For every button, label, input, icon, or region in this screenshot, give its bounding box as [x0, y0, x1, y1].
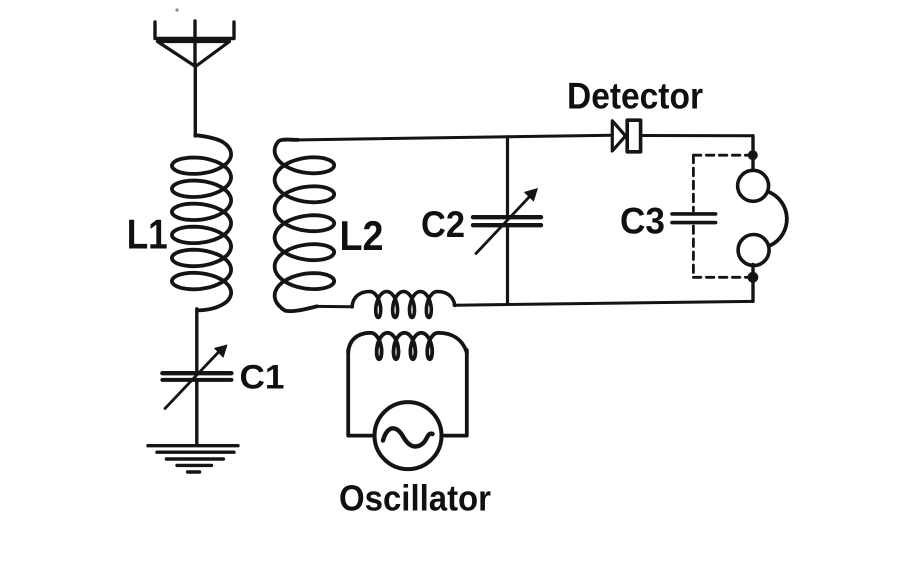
- wire antenna to L1: [194, 66, 197, 136]
- speck artifact: [175, 8, 178, 11]
- wire coupling coil to bottom right corner: [454, 301, 753, 305]
- capacitor C3: [672, 214, 716, 223]
- oscillator AC source: [375, 402, 442, 469]
- label Oscillator: [339, 477, 491, 518]
- wire right vertical top: [751, 136, 754, 171]
- oscillator box: [348, 350, 467, 436]
- label L1: [127, 210, 168, 257]
- node dot bottom: [748, 272, 759, 283]
- label L2: [340, 212, 384, 259]
- wire tank top (L2 top to detector): [293, 135, 612, 140]
- inductor L2: [275, 140, 335, 312]
- wire right vertical bottom: [751, 265, 754, 302]
- wire C1 to ground: [195, 381, 198, 444]
- label C2: [421, 204, 465, 245]
- wire diode to right corner: [641, 134, 754, 137]
- headphones: [738, 170, 787, 265]
- label Detector: [567, 76, 703, 117]
- svg-text:Oscillator: Oscillator: [339, 477, 491, 518]
- label C3: [620, 200, 665, 241]
- svg-text:L2: L2: [340, 212, 384, 259]
- inductor L1: [172, 135, 231, 310]
- oscillator coil L4: [348, 333, 467, 359]
- detector diode D1: [612, 120, 640, 152]
- antenna: [155, 21, 234, 67]
- node junction C2 top: [506, 137, 509, 215]
- svg-text:L1: L1: [127, 210, 168, 257]
- node dot top: [748, 150, 758, 160]
- svg-text:C2: C2: [421, 204, 465, 245]
- ground: [148, 446, 238, 472]
- wire L2 bottom to coupling coil: [316, 305, 353, 308]
- label C1: [240, 358, 285, 396]
- svg-text:Detector: Detector: [567, 76, 703, 117]
- wire L1 to C1: [195, 309, 198, 372]
- svg-text:C1: C1: [240, 358, 285, 396]
- capacitor C1 (variable): [162, 345, 231, 409]
- svg-text:C3: C3: [620, 200, 665, 241]
- coupling inductor L3: [352, 292, 455, 318]
- dashed enclosure for phones/C3: [693, 155, 748, 277]
- capacitor C2 (variable): [473, 189, 541, 304]
